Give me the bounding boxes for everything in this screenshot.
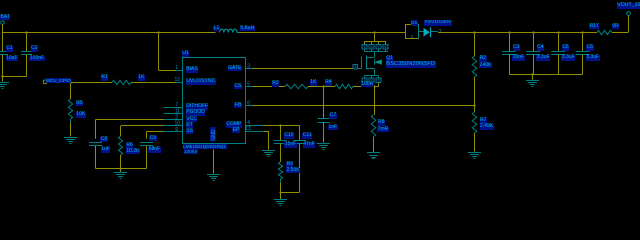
label R3: [272, 81, 279, 87]
pin Q1 source 2: [369, 78, 374, 83]
pin 1 BIAS: [164, 65, 183, 71]
capacitor C7: [318, 87, 330, 143]
label C4 value 3.3uF: [536, 55, 550, 61]
pin name FB: [234, 103, 241, 109]
pin 12 UVLO/SYNC: [164, 77, 183, 83]
wire R7 top: [474, 106, 476, 113]
wire R1 to UVLO: [131, 82, 164, 84]
wire drain drop: [374, 32, 376, 41]
svg-text:7: 7: [175, 102, 178, 108]
pin name SS: [186, 129, 194, 135]
pin Q1 source 1: [362, 78, 367, 83]
label R7 value 2.49K: [480, 124, 494, 130]
wire source merge: [365, 83, 379, 88]
capacitor C1: [0, 32, 8, 77]
label C4: [537, 45, 544, 51]
capacitor C9: [140, 143, 153, 169]
label C2: [31, 46, 38, 52]
wire RT net: [121, 126, 164, 137]
wire R4 to source: [353, 86, 365, 88]
pin 2 VCC: [164, 115, 183, 121]
wire bus to ground: [120, 169, 122, 173]
diode D1 anode box: [406, 25, 419, 40]
node BIAS tap junction: [157, 31, 159, 33]
wire GATE net: [253, 68, 354, 70]
ground output: [526, 81, 539, 87]
wire bus to output ground: [532, 75, 534, 80]
label R2 value 240K: [479, 63, 492, 69]
pin Q1 gate 4: [353, 65, 358, 69]
wire switch-node rail: [240, 32, 405, 34]
label C1: [6, 46, 13, 52]
label C11: [302, 133, 312, 139]
svg-text:6: 6: [371, 45, 373, 49]
pin Q1 drain 5: [362, 44, 367, 49]
wire input rail: [3, 32, 216, 34]
node drain junction: [373, 31, 375, 33]
svg-text:10: 10: [174, 121, 180, 127]
ground R7: [468, 153, 481, 159]
label C3 value 10nF: [512, 55, 524, 61]
wire COMP net: [263, 125, 300, 127]
wire source to R8: [374, 87, 376, 115]
wire C1-C2 bottom: [1, 75, 26, 77]
pin 7 DITHOFF: [164, 102, 183, 108]
wire BAT drop: [2, 24, 4, 32]
node C2 tap junction: [25, 31, 27, 33]
ground VCC network: [114, 173, 127, 179]
ground EP: [262, 151, 275, 157]
wire R2 top: [474, 32, 476, 56]
svg-text:9: 9: [175, 127, 178, 133]
pin 13 EP: [245, 126, 263, 132]
capacitor C2: [21, 32, 32, 77]
label U1 refdes: [182, 51, 189, 57]
label D1 refdes: [411, 20, 418, 25]
label C5 value 3.3uF: [561, 55, 575, 61]
label C7: [329, 113, 336, 119]
label R5: [76, 101, 83, 107]
pin name PGOOD: [186, 110, 206, 116]
capacitor C5: [551, 32, 565, 75]
wire R7 bottom: [474, 133, 476, 152]
pin name DITHOFF: [186, 104, 209, 110]
label C3: [513, 45, 520, 51]
label C7 value 1nF: [328, 125, 338, 131]
wire MCU_GPIO: [46, 82, 112, 84]
label Q1 refdes: [386, 56, 394, 62]
svg-text:8: 8: [385, 45, 387, 49]
node MCU_GPIO port: [43, 80, 46, 83]
ground R5: [64, 138, 77, 144]
label C11 value 47nF: [303, 142, 315, 148]
label L1: [213, 26, 220, 32]
node C6 junction: [581, 31, 583, 33]
pin name RT: [186, 123, 194, 129]
pin name UVLO/SYNC: [186, 79, 216, 85]
pin 6 FB: [246, 101, 253, 107]
pin name CS: [234, 84, 242, 90]
label C9: [149, 136, 156, 142]
label R3 value 1K: [310, 80, 317, 86]
label C5: [562, 45, 569, 51]
resistor R4: [335, 84, 353, 88]
svg-text:3: 3: [378, 79, 380, 83]
svg-text:4: 4: [354, 65, 356, 69]
wire R5 bottom: [70, 119, 72, 136]
label U1 part LM51561QDSGRQ1: [183, 144, 227, 149]
label C2 value 100nF: [29, 56, 44, 62]
pin 10 RT: [164, 121, 183, 127]
node C5 junction: [557, 31, 559, 33]
wire R8 to ground: [373, 137, 375, 153]
wire FB net: [253, 105, 475, 107]
op-amp U1 body: [183, 58, 246, 144]
label R6 value 10.2K: [126, 149, 140, 155]
capacitor C3: [502, 32, 516, 75]
label C1 value 10uF: [6, 56, 18, 62]
wire R2 bottom: [473, 77, 475, 107]
pin Q1 drain 8: [383, 44, 388, 49]
resistor R2: [472, 56, 476, 77]
label R17 value 0R: [612, 24, 619, 30]
pin 3 GATE: [246, 64, 253, 70]
wire CS net: [253, 86, 286, 88]
wire source comb top: [365, 76, 379, 79]
svg-text:6: 6: [247, 101, 250, 107]
wire gate lead: [358, 68, 362, 70]
label C8: [100, 137, 107, 143]
label R8: [378, 120, 385, 126]
wire drain merge: [365, 49, 389, 52]
pin 9 SS: [164, 127, 183, 133]
label R7: [480, 118, 487, 124]
pin name VCC: [186, 117, 198, 123]
svg-text:7: 7: [378, 45, 380, 49]
wire output rail: [438, 32, 597, 34]
wire R17 to port: [612, 16, 629, 33]
resistor R6: [118, 136, 122, 155]
ground COMP net: [274, 200, 287, 206]
ground C7: [317, 144, 330, 150]
label R1: [101, 75, 108, 81]
diode D1: [419, 27, 439, 37]
label C6: [586, 45, 593, 51]
wire R3-R4: [308, 85, 335, 87]
label R17: [589, 24, 599, 30]
ground U1: [207, 175, 220, 181]
svg-text:13: 13: [245, 126, 251, 132]
label VOUT_100V net: [617, 3, 640, 9]
resistor R17: [597, 30, 612, 34]
label R5 value 10K: [76, 112, 86, 118]
label R1 value 1K: [138, 75, 145, 81]
pin 11 PGOOD: [164, 108, 183, 114]
label C9 value 68nF: [148, 147, 160, 153]
svg-text:1: 1: [175, 65, 178, 71]
wire VCC net: [96, 120, 164, 139]
wire output cap bus: [509, 73, 583, 75]
label BAT net: [0, 15, 10, 21]
label Q1 part BSC350N20NSFD: [386, 61, 436, 68]
transistor Q1 symbol: [362, 52, 382, 76]
node C3 junction: [508, 31, 510, 33]
capacitor C11: [293, 125, 306, 192]
wire vcc-rt-ss ground bus: [96, 167, 147, 169]
svg-text:11: 11: [175, 108, 180, 114]
wire R6 bottom: [120, 155, 122, 169]
pin Q1 drain 6: [369, 44, 374, 49]
label R4 value 100R: [361, 82, 374, 88]
wire comp ground bus: [279, 191, 299, 193]
wire drain comb: [365, 41, 386, 44]
node C4 junction: [532, 31, 534, 33]
capacitor C10: [274, 125, 287, 162]
wire comp bus drop: [280, 192, 282, 199]
pin GND: [210, 127, 217, 150]
label C10: [284, 133, 294, 139]
node VBAT port: [1, 21, 5, 25]
label C6 value 3.3uF: [586, 55, 600, 61]
svg-text:GND: GND: [211, 129, 217, 141]
svg-text:5: 5: [364, 45, 366, 49]
svg-text:2: 2: [175, 115, 178, 121]
resistor R7: [472, 112, 476, 133]
wire R9 bottom: [280, 179, 282, 192]
svg-text:12: 12: [174, 77, 180, 83]
wire U1 gnd: [213, 150, 215, 174]
pin Q1 drain 7: [376, 44, 381, 49]
pin Q1 source 3: [376, 78, 381, 83]
resistor R5: [68, 99, 72, 119]
wire BIAS net: [159, 32, 164, 71]
label C10 value 15nF: [284, 142, 296, 148]
resistor R1: [112, 80, 131, 84]
label L1 value 5.6uH: [240, 26, 255, 32]
wire EP net: [264, 131, 269, 150]
resistor R3: [285, 84, 308, 88]
wire R5 top: [70, 82, 72, 99]
pin 4 COMP: [246, 120, 264, 126]
label C8 value 1uF: [101, 147, 111, 153]
inductor L1: [220, 29, 241, 32]
label U1 footprint 230Ke: [184, 149, 198, 154]
pin name BIAS: [186, 67, 198, 73]
pin 5 CS: [246, 82, 253, 88]
node divider junction: [473, 31, 475, 33]
node C10 junction: [279, 124, 281, 126]
pin D1 cathode 3: [439, 29, 442, 35]
resistor R8: [371, 115, 375, 137]
label D1 part FSV10150V: [424, 20, 451, 26]
ground input: [0, 83, 9, 89]
label MCU_GPIO net: [45, 78, 71, 83]
capacitor C4: [526, 32, 540, 75]
pin name GATE: [228, 66, 242, 72]
label R8 value 7mR: [377, 127, 389, 133]
capacitor C8: [89, 143, 102, 169]
pin name EP: [232, 128, 240, 134]
svg-text:3: 3: [247, 64, 250, 70]
label R9 value 2.55K: [286, 168, 300, 174]
ground R8: [367, 153, 380, 159]
label R4: [325, 80, 332, 86]
label R2: [479, 56, 486, 62]
svg-text:2: 2: [411, 34, 414, 39]
resistor R9: [278, 162, 282, 179]
capacitor C6: [576, 32, 590, 75]
node VOUT_100V port: [627, 12, 631, 16]
label R6: [126, 143, 133, 149]
node R5 junction: [69, 81, 71, 83]
pin name COMP: [226, 122, 242, 128]
wire SS net: [146, 132, 163, 139]
svg-text:5: 5: [247, 82, 250, 88]
label R9: [286, 162, 293, 168]
wire to input ground: [2, 77, 4, 82]
